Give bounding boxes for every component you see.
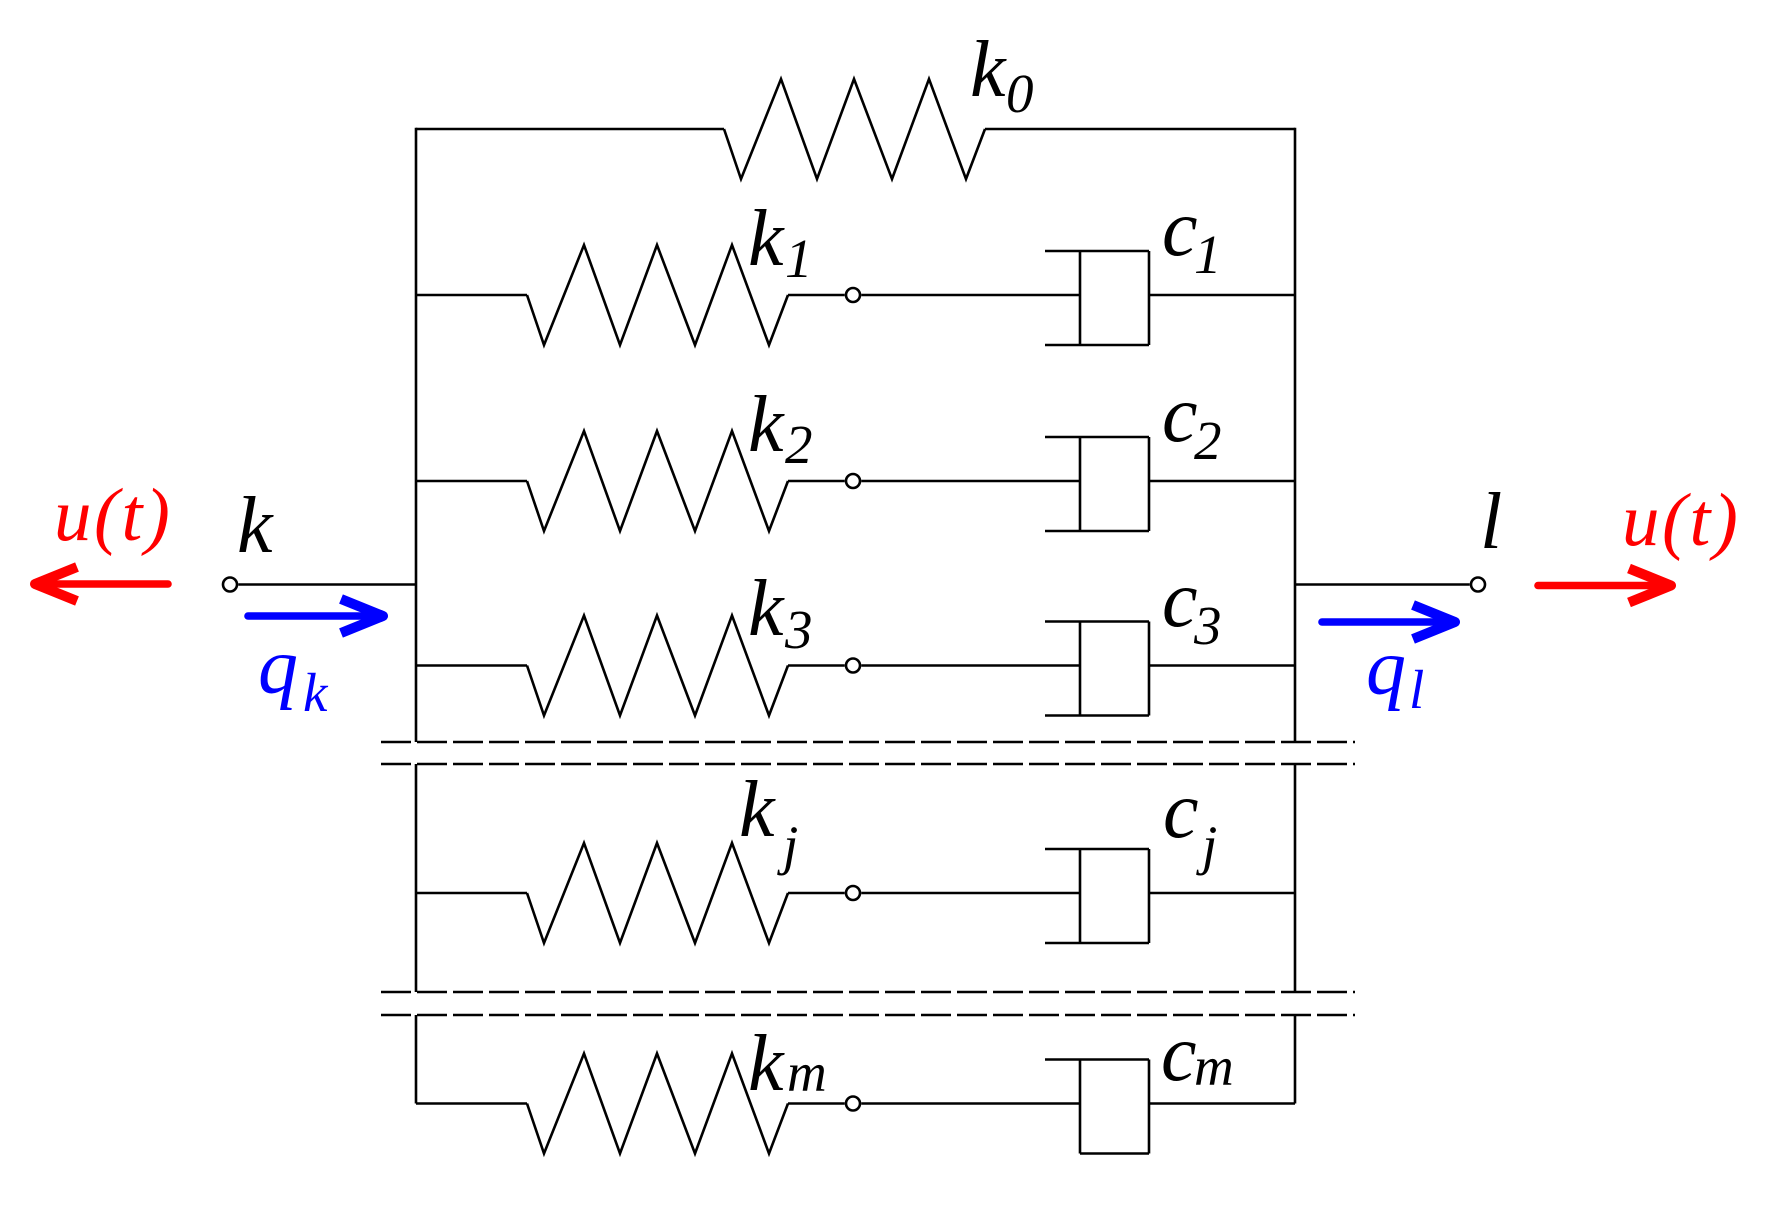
svg-text:c: c (1162, 556, 1198, 644)
label km (748, 1020, 827, 1108)
svg-text:m: m (1194, 1036, 1234, 1097)
node l terminal circle (1471, 578, 1485, 592)
right rail (middle part) (1294, 764, 1297, 992)
wire: spring km to node (788, 1102, 845, 1105)
left rail (vertical bus, upper part) (415, 128, 418, 742)
damper c2 (1045, 436, 1149, 439)
svg-text:l: l (1480, 478, 1502, 566)
label qk (258, 623, 329, 723)
label u(t) left (54, 474, 172, 557)
svg-text:k: k (303, 662, 329, 723)
continuation dashed line (upper pair, first) (381, 741, 1355, 744)
spring k0 (724, 79, 985, 179)
arrow qk (blue, pointing right) (248, 599, 383, 633)
spring k3 (527, 616, 788, 716)
wire: right rail to node l (1295, 583, 1470, 586)
svg-text:2: 2 (785, 414, 813, 475)
wire: node to damper cm piston rod (861, 1102, 1080, 1105)
damper cj (1045, 848, 1149, 851)
spring k2 (527, 431, 788, 531)
wire: node to damper c3 piston rod (861, 664, 1080, 667)
svg-text:2: 2 (1194, 410, 1222, 471)
wire: damper cm to right rail (1149, 1102, 1295, 1105)
wire: node to damper c1 piston rod (861, 294, 1080, 297)
arrow u(t) left (red, pointing left) (35, 567, 168, 601)
svg-text:c: c (1162, 185, 1198, 273)
wire: damper c3 to right rail (1149, 664, 1295, 667)
node k terminal circle (223, 578, 237, 592)
wire: node k to left rail (238, 583, 416, 586)
node between spring km and damper cm (846, 1097, 860, 1111)
wire: left rail to spring km (416, 1102, 527, 1105)
svg-text:c: c (1162, 371, 1198, 459)
wire: left rail to spring kj (416, 892, 527, 895)
arrow ql (blue, pointing right) (1322, 605, 1455, 639)
wire: node to damper cj piston rod (861, 892, 1080, 895)
wire: spring k2 to node (788, 480, 845, 483)
left rail (middle part) (415, 764, 418, 992)
damper c3 (1045, 620, 1149, 623)
label cm (1161, 1010, 1234, 1098)
svg-text:l: l (1409, 659, 1424, 720)
label cj (1163, 767, 1217, 876)
svg-text:k: k (748, 195, 785, 283)
svg-text:k: k (739, 766, 776, 854)
svg-text:3: 3 (784, 599, 813, 660)
label u(t) right (1622, 479, 1740, 562)
wire: left rail to spring k0 (416, 128, 724, 131)
label k1 (748, 195, 813, 289)
label node l (1480, 478, 1502, 566)
svg-text:c: c (1163, 767, 1199, 855)
svg-text:0: 0 (1006, 63, 1034, 124)
wire: damper c1 to right rail (1149, 294, 1295, 297)
spring k1 (527, 245, 788, 345)
wire: spring k3 to node (788, 664, 845, 667)
label k2 (748, 381, 813, 475)
continuation dashed line (lower pair, second) (381, 1014, 1355, 1017)
right rail (vertical bus, upper part) (1294, 128, 1297, 742)
left rail (lower part) (415, 1015, 418, 1104)
svg-text:k: k (748, 381, 785, 469)
svg-text:1: 1 (785, 228, 813, 289)
spring km (527, 1054, 788, 1154)
continuation dashed line (lower pair, first) (381, 991, 1355, 994)
label k0 (970, 26, 1034, 124)
svg-text:u(t): u(t) (54, 474, 172, 557)
wire: left rail to spring k3 (416, 664, 527, 667)
spring kj (527, 843, 788, 943)
svg-text:c: c (1161, 1010, 1197, 1098)
wire: damper c2 to right rail (1149, 480, 1295, 483)
damper c1 (1045, 250, 1149, 253)
svg-text:k: k (237, 482, 274, 570)
label c3 (1162, 556, 1222, 656)
wire: spring k1 to node (788, 294, 845, 297)
wire: node to damper c2 piston rod (861, 480, 1080, 483)
wire: left rail to spring k2 (416, 480, 527, 483)
wire: spring kj to node (788, 892, 845, 895)
svg-text:q: q (1366, 624, 1406, 712)
svg-text:k: k (970, 26, 1007, 114)
label c2 (1162, 371, 1222, 471)
node between spring k2 and damper c2 (846, 474, 860, 488)
svg-text:u(t): u(t) (1622, 479, 1740, 562)
svg-text:m: m (787, 1042, 827, 1103)
label c1 (1162, 185, 1222, 285)
wire: left rail to spring k1 (416, 294, 527, 297)
node between spring k3 and damper c3 (846, 659, 860, 673)
label ql (1366, 624, 1424, 720)
label k3 (748, 565, 813, 660)
svg-text:k: k (748, 565, 785, 653)
right rail (lower part) (1294, 1015, 1297, 1104)
svg-text:1: 1 (1194, 224, 1222, 285)
node between spring kj and damper cj (846, 886, 860, 900)
continuation dashed line (upper pair, second) (381, 763, 1355, 766)
label kj (739, 766, 798, 876)
node between spring k1 and damper c1 (846, 288, 860, 302)
damper cm (1045, 1058, 1149, 1061)
svg-text:q: q (258, 623, 298, 711)
wire: spring k0 to right rail (985, 128, 1295, 131)
label node k (237, 482, 274, 570)
svg-text:k: k (748, 1020, 785, 1108)
wire: damper cj to right rail (1149, 892, 1295, 895)
svg-text:3: 3 (1193, 595, 1222, 656)
arrow u(t) right (red, pointing right) (1538, 569, 1671, 603)
